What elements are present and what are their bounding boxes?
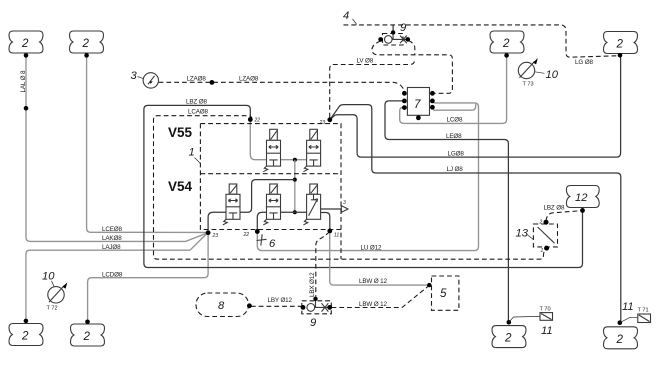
solenoid valve V54-B xyxy=(263,184,280,225)
svg-text:LCDØ8: LCDØ8 xyxy=(102,272,123,279)
wire LCE: second front-left bellows to port 23 xyxy=(87,57,206,232)
gauge test point 10 / T72 xyxy=(42,271,67,312)
solenoid valve V55-2 xyxy=(303,129,320,171)
levelling valve 13 xyxy=(516,220,558,255)
svg-text:2: 2 xyxy=(616,38,624,51)
air bellows 2 front-left 2 xyxy=(70,31,104,58)
wire LC: valve 7 to top-right bellows xyxy=(400,57,507,123)
svg-text:2: 2 xyxy=(504,332,512,345)
svg-text:LCØ8: LCØ8 xyxy=(447,117,463,124)
svg-text:22: 22 xyxy=(254,118,261,124)
wire LBW: port 11 to item 5 xyxy=(330,232,432,287)
wire LG: V55 port 23 to top-right bellows 2 xyxy=(330,57,621,157)
air bellows 2 bottom-left 1 xyxy=(9,319,43,346)
plug 6 xyxy=(257,234,277,250)
item 4 label xyxy=(343,10,357,25)
junction dots V55/V54 ports xyxy=(206,117,332,235)
svg-text:5: 5 xyxy=(440,287,447,300)
svg-text:2: 2 xyxy=(539,220,543,226)
svg-text:12: 12 xyxy=(575,192,588,204)
svg-text:22: 22 xyxy=(243,232,250,238)
wire LU: port 22 to valve 7 right middle port xyxy=(257,103,478,251)
dashed line LBX: port 11 to valve 9 xyxy=(316,232,330,297)
valve block V55/V54 labels xyxy=(168,125,193,194)
svg-text:LBY Ø12: LBY Ø12 xyxy=(268,297,293,304)
dashed line 4 to top-right bellows xyxy=(344,25,618,57)
svg-text:9: 9 xyxy=(400,22,406,34)
svg-text:LCEØ8: LCEØ8 xyxy=(102,226,123,233)
dashed pilot line from port 23 up xyxy=(330,60,415,118)
svg-text:LBW Ø 12: LBW Ø 12 xyxy=(359,278,387,285)
svg-text:LJ Ø8: LJ Ø8 xyxy=(447,166,464,173)
svg-text:8: 8 xyxy=(218,300,225,312)
svg-text:T 71: T 71 xyxy=(638,308,649,314)
pipe labels center/right xyxy=(268,58,594,308)
svg-text:2: 2 xyxy=(21,37,29,50)
svg-text:T 72: T 72 xyxy=(47,306,58,312)
wire port 23 to valve A xyxy=(208,212,227,230)
wire LBZ: V55 port 22 to bellows 12 xyxy=(144,105,583,267)
dashed line LCA and frame boundary to item 13 xyxy=(154,116,546,260)
air bellows 2 front-left 1 xyxy=(9,31,43,58)
svg-text:LAL Ø 8: LAL Ø 8 xyxy=(20,70,27,92)
wire LAJ: bottom-left bellows to port 23 xyxy=(26,234,207,319)
svg-text:11: 11 xyxy=(541,325,553,337)
port number labels xyxy=(212,118,340,240)
svg-text:LZAØ8: LZAØ8 xyxy=(239,76,259,83)
solenoid valve V54-C xyxy=(303,184,320,225)
dashed line LBZ: item 13 to bellows 12 xyxy=(546,211,580,221)
svg-text:23: 23 xyxy=(212,233,219,239)
wire V55 valve1-valve2 link xyxy=(281,158,307,162)
svg-text:LEØ8: LEØ8 xyxy=(446,133,462,140)
test connection T70 / 11 xyxy=(509,307,553,338)
solenoid valve V54-A xyxy=(223,184,240,225)
svg-text:LBX Ø12: LBX Ø12 xyxy=(309,272,316,297)
svg-text:T 70: T 70 xyxy=(540,307,551,313)
svg-text:3: 3 xyxy=(343,200,346,206)
svg-text:6: 6 xyxy=(269,238,276,250)
dashed line LBW to item 5 xyxy=(332,287,428,308)
svg-text:9: 9 xyxy=(310,317,316,329)
svg-text:LBW Ø 12: LBW Ø 12 xyxy=(359,301,387,308)
svg-text:10: 10 xyxy=(546,69,559,81)
svg-text:LCAØ8: LCAØ8 xyxy=(188,108,209,115)
svg-text:2: 2 xyxy=(21,330,29,343)
svg-text:2: 2 xyxy=(502,37,510,50)
svg-text:2: 2 xyxy=(616,333,624,346)
gauge test point 10 / T73 xyxy=(518,58,558,87)
wire valve C to port 11 xyxy=(321,213,330,230)
dashed box V55/V54 unit xyxy=(200,124,341,259)
svg-text:1: 1 xyxy=(541,248,544,254)
air bellows 12 xyxy=(566,186,599,213)
svg-text:4: 4 xyxy=(343,10,349,22)
svg-text:LBZ Ø8: LBZ Ø8 xyxy=(186,99,207,106)
svg-text:LG Ø8: LG Ø8 xyxy=(575,59,593,66)
dashed stub valve 9 right port down xyxy=(409,41,415,55)
svg-text:13: 13 xyxy=(516,228,529,240)
wire valve B to valve C xyxy=(281,211,307,213)
air bellows 2 top-right 2 xyxy=(604,32,638,58)
dashed line LZA: item 3 to valve 7 top-left port xyxy=(159,80,405,92)
pipe labels left column xyxy=(20,70,259,279)
wire LJ: V55 port 23 to bottom-right bellows 2 xyxy=(330,105,621,321)
wire V55 link down to V54 xyxy=(293,160,297,215)
dashed stub to valve 9 top port xyxy=(392,26,394,32)
wire LCD: port 23 to bottom-left bellows 2 xyxy=(88,235,209,320)
svg-text:LV Ø8: LV Ø8 xyxy=(357,58,374,65)
wire LE: valve 7 to bottom-right bellows xyxy=(385,101,508,320)
wire port 22 stub to valve B xyxy=(257,212,266,229)
svg-text:LAKØ8: LAKØ8 xyxy=(102,235,122,242)
wire V55 port 22 to valve 1 xyxy=(250,121,266,160)
pressure test point 3 xyxy=(131,70,159,88)
svg-text:LU Ø12: LU Ø12 xyxy=(361,244,382,251)
air bellows 2 bottom-left 2 xyxy=(71,320,105,347)
test valve 9 bottom xyxy=(301,297,333,329)
wire valve C exhaust port 3 xyxy=(321,200,348,213)
air bellows 2 bottom-right 1 xyxy=(492,320,526,348)
control unit 5 xyxy=(432,276,459,310)
svg-text:23: 23 xyxy=(319,120,326,126)
solenoid valve V55-1 xyxy=(263,129,280,171)
wire valve A output xyxy=(240,180,295,213)
svg-text:3: 3 xyxy=(131,70,138,82)
svg-text:2: 2 xyxy=(83,330,91,343)
svg-text:2: 2 xyxy=(82,37,90,50)
air bellows 2 top-right 1 xyxy=(490,31,524,58)
svg-text:LBZ Ø8: LBZ Ø8 xyxy=(544,204,565,211)
item 1 label xyxy=(189,147,201,164)
svg-text:11: 11 xyxy=(334,233,339,239)
svg-text:LGØ8: LGØ8 xyxy=(448,151,465,158)
air bellows 2 bottom-right 2 xyxy=(604,320,638,348)
svg-text:11: 11 xyxy=(622,301,634,313)
svg-text:10: 10 xyxy=(42,271,55,283)
wire valve 7 bottom-right port xyxy=(433,104,475,110)
svg-text:1: 1 xyxy=(189,147,195,159)
test valve 9 top xyxy=(378,22,410,45)
dashed line LV: valve 9 to valve 7 top-right port xyxy=(372,41,452,93)
svg-text:V54: V54 xyxy=(168,179,193,194)
svg-text:7: 7 xyxy=(414,98,421,111)
wire LAL/LAK: front-left bellows to port 23 xyxy=(24,57,207,241)
svg-text:V55: V55 xyxy=(168,125,193,140)
svg-text:T 73: T 73 xyxy=(523,82,534,88)
svg-text:LZAØ8: LZAØ8 xyxy=(187,76,207,83)
dashed line LBY: silencer 8 to valve 9 xyxy=(251,305,302,307)
test connection T71 / 11 xyxy=(620,301,651,323)
svg-text:LAJØ8: LAJØ8 xyxy=(102,244,121,251)
levelling valve 7 xyxy=(402,88,435,121)
silencer 8 xyxy=(196,293,252,317)
